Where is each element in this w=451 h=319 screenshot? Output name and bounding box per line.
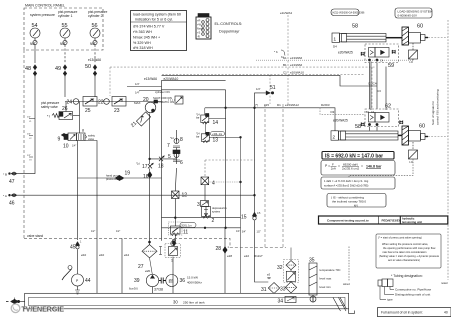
motor 36 [166, 275, 203, 287]
svg-text:PED/97/23/EC: PED/97/23/EC [382, 219, 402, 223]
svg-text:r% 363 WH: r% 363 WH [133, 30, 152, 34]
breather 34 [278, 297, 297, 305]
svg-text:=: = [361, 164, 363, 168]
watermark logo [11, 304, 64, 314]
svg-text:62: 62 [385, 104, 391, 110]
test point 24 [67, 99, 79, 106]
dashed electric line e11 from terminal [274, 11, 292, 104]
shutoff valve 12 [172, 168, 188, 218]
svg-text:NO: NO [60, 42, 65, 46]
throttle check 5/6 [168, 148, 183, 167]
svg-text:69200 daN: 69200 daN [343, 162, 358, 166]
P rail [162, 217, 241, 219]
svg-text:NO: NO [30, 42, 35, 46]
svg-text:8: 8 [180, 137, 183, 143]
svg-text:15: 15 [241, 215, 247, 221]
D2/D3 dashed jog [320, 108, 365, 115]
full amount box [378, 308, 451, 317]
pressure valve note box [376, 234, 441, 268]
main supply pipe to cylinders [162, 75, 378, 86]
block 62 to cylinder ports [370, 127, 378, 131]
wire gauge55 down (dashed hose) [64, 45, 66, 63]
wire 50 down to isolator row [94, 76, 96, 97]
svg-text:type: type [387, 298, 393, 302]
svg-text:+S: +S [197, 31, 201, 35]
svg-text:e13/WA6: e13/WA6 [88, 58, 101, 62]
svg-text:(*): (*) [255, 103, 258, 107]
force result box [322, 152, 394, 160]
svg-text:safety: safety [88, 134, 96, 138]
cross line pump to manifold [150, 158, 177, 160]
svg-text:Distinguishing mark of unit: Distinguishing mark of unit [395, 293, 430, 297]
svg-text:P =: P = [325, 164, 330, 168]
svg-text:35: 35 [309, 258, 315, 264]
main pressure line down [255, 108, 275, 294]
return line e22 [236, 230, 249, 258]
svg-text:23: 23 [114, 108, 120, 114]
signal wire cyl2 down [343, 159, 413, 286]
svg-text:50: 50 [85, 64, 91, 70]
svg-text:1/2": 1/2" [116, 230, 120, 233]
svg-text:e15/WA12: e15/WA12 [285, 103, 299, 107]
test point 22 [98, 99, 109, 106]
suction filter 27 [138, 241, 162, 274]
svg-text:e22: e22 [244, 254, 249, 258]
svg-text:2: 2 [212, 218, 215, 224]
svg-text:47: 47 [9, 179, 15, 185]
svg-text:60: 60 [417, 24, 423, 30]
svg-text:B1: B1 [283, 63, 287, 67]
2/2 way valve 2 [202, 185, 228, 224]
port 47 quick coupling [3, 172, 17, 185]
motor ball valve 20 [134, 97, 156, 113]
shutoff valve 50 [85, 58, 101, 76]
svg-text:e13/WA6: e13/WA6 [290, 56, 303, 60]
svg-text:146.8 bar: 146.8 bar [366, 164, 382, 168]
gauge 54 [30, 13, 55, 46]
svg-text:32: 32 [277, 265, 283, 271]
drawing number label [331, 9, 365, 16]
rotated note sum of signals [431, 89, 440, 125]
svg-text:*: * [168, 228, 169, 231]
svg-text:+W: +W [197, 23, 202, 27]
valve block 62 (cylinder 2) [361, 104, 403, 127]
dotted signal line A1 [256, 56, 413, 60]
svg-text:Consecutive no. Pipe/Hose: Consecutive no. Pipe/Hose [395, 288, 432, 292]
svg-text:1/4": 1/4" [135, 91, 140, 95]
svg-text:e11/WA4: e11/WA4 [280, 11, 292, 15]
check valve 51 [255, 85, 276, 108]
dashed signal line B1 [110, 63, 376, 109]
svg-text:EL.CONTROLS:: EL.CONTROLS: [215, 22, 243, 26]
svg-text:58: 58 [355, 124, 361, 130]
component testing bar [319, 216, 448, 224]
svg-text:rate has to be taken into cons: rate has to be taken into consideration [383, 250, 428, 254]
svg-text:wired: wired [343, 282, 350, 286]
svg-text:control f 56 and monitoring: control f 56 and monitoring [436, 89, 440, 125]
el. controls note [215, 22, 243, 34]
cylinder 2 (item 58) [331, 119, 402, 141]
svg-text:NO: NO [90, 42, 95, 46]
right edge signal dashed line [428, 20, 448, 285]
valve block 59 (dashed group) [361, 44, 399, 69]
terminal connector block [196, 14, 211, 40]
pressure relief valve 13 [196, 123, 241, 294]
svg-text:1/2": 1/2" [27, 155, 31, 157]
svg-text:bar: bar [196, 136, 200, 139]
hand pump pressure line [78, 171, 162, 182]
svg-text:* A: * A [3, 194, 7, 198]
svg-text:19: 19 [125, 171, 131, 177]
svg-text:ø12: ø12 [124, 253, 130, 257]
cylinder 1 (item 58) [332, 24, 402, 55]
svg-text:59: 59 [388, 63, 394, 69]
svg-text:MAX: MAX [134, 101, 141, 105]
svg-text:58: 58 [352, 24, 358, 30]
svg-text:1/2": 1/2" [257, 231, 261, 234]
svg-text:system pressure: system pressure [30, 13, 55, 17]
manifold inlet stubs [127, 82, 162, 95]
svg-text:ø10: ø10 [99, 253, 105, 257]
svg-text:(* = start of press.contr.valv: (* = start of press.contr.valve opening) [378, 236, 422, 240]
svg-text:8: 8 [82, 129, 84, 133]
manifold block outline [144, 77, 226, 241]
svg-text:49: 49 [55, 66, 61, 72]
signal transducer I-O (cyl 1) [409, 43, 418, 64]
svg-text:Component testing accord.to: Component testing accord.to [327, 219, 369, 223]
svg-text:34: 34 [278, 299, 284, 305]
svg-text:1 daN = +2 % KO daN = de: 1 daN = +2 % KO daN = det p.S. ring [324, 179, 369, 183]
svg-text:26: 26 [62, 106, 68, 112]
pump line vertical [149, 114, 151, 245]
valve stand dashed enclosure [24, 50, 286, 248]
solenoid valve 3 [197, 201, 209, 209]
svg-text:45: 45 [70, 245, 76, 251]
dashed signal line C1 [162, 71, 364, 105]
svg-text:indication for 5 or 6 cyl.: indication for 5 or 6 cyl. [135, 18, 173, 22]
dashed suction line to 4 [205, 160, 255, 177]
svg-text:bar: bar [196, 117, 200, 120]
level gauge 35 [309, 258, 341, 303]
svg-text:44: 44 [85, 278, 91, 284]
svg-text:1: 1 [334, 37, 337, 42]
svg-text:HZ11-V00/300-GA-5000-2366: HZ11-V00/300-GA-5000-2366 [333, 12, 366, 15]
svg-text:F: F [332, 162, 334, 166]
svg-text:3/4": 3/4" [242, 231, 246, 234]
svg-text:4: 4 [212, 181, 215, 187]
relief valve 11 [168, 218, 196, 294]
svg-text:Doppelmayr: Doppelmayr [219, 29, 240, 33]
check valve 15 [241, 212, 261, 221]
svg-text:11: 11 [183, 230, 188, 236]
svg-text:1/2": 1/2" [91, 230, 95, 233]
svg-text:tensioning unit: tensioning unit [402, 220, 422, 224]
wire 49 down to isolator row [64, 76, 66, 97]
shutoff valve 48 [25, 65, 37, 77]
svg-text:acc.to valve characteristics): acc.to valve characteristics) [388, 258, 420, 262]
hand pump 44 [62, 249, 91, 294]
pressure relief valve 14 [196, 108, 226, 126]
svg-text:e13/WA6: e13/WA6 [144, 77, 157, 81]
svg-text:C3: C3 [377, 89, 381, 93]
pump suction to tank [152, 287, 154, 294]
svg-text:-R: -R [197, 35, 200, 39]
svg-text:e28: e28 [227, 254, 232, 258]
return filter 31 [254, 254, 280, 294]
svg-text:TV/ENERGIE: TV/ENERGIE [22, 307, 65, 314]
wire gauge54 down [34, 45, 36, 63]
svg-text:IS = 692.0 kN = 147.0 bar: IS = 692.0 kN = 147.0 bar [325, 153, 383, 159]
svg-text:31: 31 [261, 287, 267, 293]
return line ø12 [116, 230, 130, 293]
svg-text:22: 22 [98, 100, 104, 106]
svg-text:17: 17 [142, 164, 148, 170]
runway note box [327, 194, 386, 208]
shutoff valve 4 [201, 177, 215, 187]
svg-text:Nmax: Nmax [197, 27, 204, 31]
gauge isolator valve 25 [83, 97, 97, 115]
svg-text:9: 9 [58, 137, 61, 143]
svg-text:* B: * B [3, 173, 7, 177]
svg-text:1/4": 1/4" [236, 230, 240, 233]
svg-text:% 329 WH: % 329 WH [133, 41, 151, 45]
return line from port 46 [17, 194, 255, 196]
valve 17 [136, 163, 153, 171]
wire 26 down to valve 9/10 [79, 102, 81, 134]
svg-text:e20/WA25: e20/WA25 [333, 119, 348, 123]
svg-text:Sum of signals for: Sum of signals for [431, 101, 435, 125]
svg-text:46: 46 [9, 201, 15, 207]
valve 18 [158, 156, 164, 169]
anchor wall (hatched) cylinder 1 [402, 27, 409, 45]
svg-text:6: 6 [180, 160, 183, 166]
svg-text:400V/50Hz: 400V/50Hz [187, 281, 202, 285]
svg-text:kN: kN [354, 204, 358, 208]
gauge isolator valve 23 [112, 97, 126, 115]
valve 21 (rotated actuator) [130, 109, 155, 129]
svg-text:valve stand: valve stand [27, 234, 43, 238]
load-sensing system label [395, 8, 433, 18]
svg-text:10: 10 [63, 144, 69, 150]
svg-text:60: 60 [419, 124, 425, 130]
svg-text:* Tubing designation:: * Tubing designation: [391, 274, 423, 278]
svg-text:1/2": 1/2" [27, 117, 31, 119]
main control panel enclosure [24, 4, 103, 51]
svg-text:the opening performance with m: the opening performance with max pump fl… [383, 246, 435, 250]
svg-text:27: 27 [138, 264, 144, 270]
svg-text:250 liter oil tank: 250 liter oil tank [183, 300, 205, 304]
svg-text:1: 1 [171, 259, 173, 263]
wire isolator row across [65, 101, 162, 103]
svg-text:level min: level min [320, 285, 331, 289]
filler breather 32 [277, 248, 299, 283]
svg-text:24: 24 [67, 100, 73, 106]
pist pressure safety valve 26 [41, 101, 73, 120]
svg-text:48: 48 [25, 66, 31, 72]
hand pump supply line [77, 141, 79, 241]
svg-text:m: m [169, 279, 174, 285]
oil tank 30 [25, 293, 349, 311]
tank foot [349, 309, 355, 314]
svg-text:51: 51 [270, 85, 276, 91]
gauge 56 [88, 10, 108, 46]
svg-text:load-sensing system (item 60: load-sensing system (item 60 [133, 13, 181, 17]
svg-text:20: 20 [143, 97, 149, 103]
junction dots [254, 194, 256, 196]
return line ø10 [85, 141, 105, 294]
svg-text:e13/WA6: e13/WA6 [290, 63, 303, 67]
svg-text:D3: D3 [331, 110, 335, 114]
load-sensing indication table [131, 11, 187, 51]
svg-text:cylinder ON: cylinder ON [155, 90, 170, 94]
svg-text:1/4": 1/4" [72, 145, 76, 148]
svg-text:14: 14 [213, 120, 219, 126]
svg-text:2xA: 2xA [331, 167, 336, 171]
svg-text:D4: D4 [333, 45, 337, 49]
svg-text:D2/D3: D2/D3 [321, 103, 330, 107]
coupling 37/38 [154, 278, 166, 292]
svg-text:30: 30 [173, 300, 178, 305]
svg-text:25: 25 [85, 108, 91, 114]
svg-text:MAIN CONTROL PANEL: MAIN CONTROL PANEL [25, 4, 65, 8]
load cell 60 (cyl 1) [409, 24, 429, 44]
svg-text:40: 40 [444, 311, 448, 315]
pump unit 39 [129, 274, 159, 290]
svg-text:cylinder 1: cylinder 1 [58, 14, 73, 18]
svg-text:7: 7 [167, 143, 170, 149]
svg-text:+R: +R [197, 19, 201, 23]
svg-text:+20L.1m: +20L.1m [182, 223, 192, 227]
svg-text:6cm3/U: 6cm3/U [129, 287, 138, 291]
port ticks on left riser [27, 117, 35, 162]
gauge 55 [58, 10, 78, 46]
svg-text:ø10: ø10 [81, 253, 87, 257]
svg-text:3: 3 [197, 202, 200, 208]
svg-text:1/4": 1/4" [256, 87, 261, 91]
formula box [321, 161, 395, 176]
shutoff 16 [143, 172, 152, 181]
check valve 45 [70, 241, 82, 251]
svg-text:temperature 70C: temperature 70C [320, 268, 341, 272]
svg-text:e20/WA25: e20/WA25 [338, 51, 353, 55]
return filter 33 [280, 282, 297, 294]
units note box [321, 177, 395, 189]
T rail [162, 227, 241, 229]
svg-text:1/4": 1/4" [27, 134, 31, 136]
drain valve tank left [6, 298, 25, 304]
small drain valve 26b [172, 240, 176, 246]
svg-text:18: 18 [158, 164, 164, 170]
svg-text:C1: C1 [283, 71, 287, 75]
svg-text:2x235.6 cm2: 2x235.6 cm2 [342, 167, 360, 171]
signal transducer I-O (cyl 2) [409, 142, 418, 164]
directional valve 9/10 [58, 129, 96, 150]
port 46 quick coupling [3, 194, 17, 207]
svg-text:(Setting value = start of open: (Setting value = start of opening + dyna… [379, 254, 440, 258]
cylinder on/off label box [153, 90, 183, 104]
svg-text:safety valve: safety valve [41, 105, 58, 109]
svg-text:ø20: ø20 [145, 269, 151, 273]
load cell 60 (cyl 2) [409, 124, 429, 142]
wire gauge56 down (dashed hose) [94, 45, 96, 63]
svg-text:surface A =235.8cm2 D/d2-d2x0: surface A =235.8cm2 D/d2-d2x0.785) [324, 184, 369, 188]
svg-text:36: 36 [180, 278, 186, 284]
svg-text:d% 318 WH: d% 318 WH [133, 46, 153, 50]
shutoff valve 49 [55, 65, 67, 77]
anchor wall (hatched) cylinder 2 [402, 126, 409, 145]
svg-text:0-600kN/0-10V: 0-600kN/0-10V [398, 13, 418, 17]
svg-text:* b: * b [274, 50, 278, 54]
svg-text:D1: D1 [277, 103, 281, 107]
svg-text:+30L.1m: +30L.1m [212, 132, 222, 136]
svg-text:2: 2 [333, 135, 336, 140]
wire 48 down to port 47 corner [17, 76, 35, 174]
check valve 19 [115, 175, 124, 180]
valve 26 to row connector [65, 102, 67, 112]
svg-text:Nmax 345 WH +: Nmax 345 WH + [133, 36, 160, 40]
svg-text:39: 39 [134, 278, 140, 284]
svg-text:e20/WA10: e20/WA10 [290, 71, 304, 75]
svg-text:28: 28 [216, 246, 222, 252]
svg-text:37/38: 37/38 [154, 288, 163, 292]
main return with ball valve 28 [216, 228, 233, 293]
svg-text:When setting the pressure cont: When setting the pressure control valve, [382, 242, 429, 246]
svg-text:system: system [212, 210, 220, 214]
pressure line D3 to cyl2 [205, 108, 335, 131]
svg-text:level max: level max [320, 277, 332, 281]
svg-text:1/4": 1/4" [135, 82, 140, 86]
tubing designation legend [378, 274, 432, 302]
svg-text:15.0 kW: 15.0 kW [187, 276, 198, 280]
svg-text:the inclined runway 780.0: the inclined runway 780.0 [332, 200, 366, 204]
svg-text:Full amount of oil in system:: Full amount of oil in system: [381, 311, 423, 315]
svg-text:13: 13 [213, 138, 219, 144]
pipes block 59 down [370, 62, 372, 111]
pressure line D1 [255, 103, 330, 107]
svg-text:* i: * i [47, 115, 50, 119]
throttle check 7/8 [167, 130, 183, 149]
svg-text:depressurize: depressurize [212, 206, 227, 210]
svg-text:cylinder 2: cylinder 2 [88, 14, 103, 18]
svg-text:noted: noted [441, 281, 448, 285]
svg-text:R11/2": R11/2" [254, 254, 263, 258]
svg-text:=: = [338, 164, 340, 168]
bypass group 29 [165, 241, 181, 262]
svg-text:d% 374 WH 5.77 V: d% 374 WH 5.77 V [133, 25, 165, 29]
